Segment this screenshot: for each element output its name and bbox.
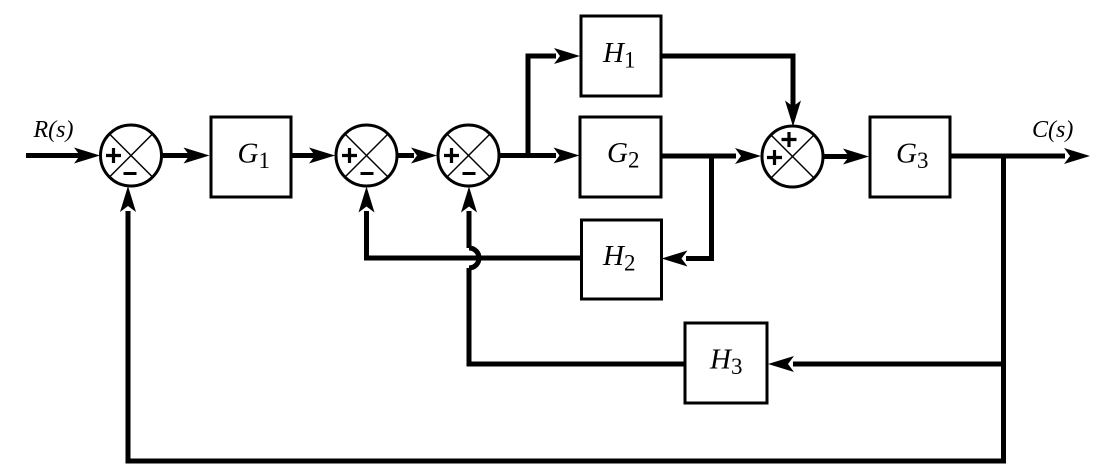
svg-text:C(s): C(s) [1032,117,1073,143]
svg-text:R(s): R(s) [33,117,74,143]
